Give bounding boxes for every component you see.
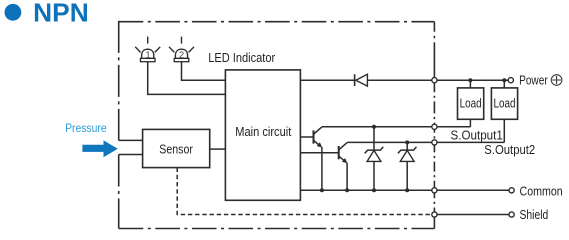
diode D1: [355, 74, 368, 86]
junction ZD2 bottom: [405, 188, 409, 192]
enclosure border right segment 4: [433, 142, 435, 190]
svg-text:Shield: Shield: [520, 207, 549, 222]
wire shield outside: [434, 214, 509, 216]
wire LED1 to main circuit: [148, 62, 226, 95]
junction ZD2 top: [405, 140, 409, 144]
junction load 1 stem: [468, 78, 472, 82]
LED indicator 1: [135, 37, 160, 62]
svg-text:Sensor: Sensor: [159, 142, 193, 157]
wire sensor input 2: [119, 154, 143, 156]
svg-text:NPN: NPN: [33, 0, 88, 27]
enclosure border left upper segment: [118, 21, 120, 140]
enclosure border right segment 1: [433, 22, 435, 80]
enclosure border bottom: [119, 228, 435, 230]
svg-text:LED Indicator: LED Indicator: [208, 50, 276, 65]
wire main circuit to diode: [300, 79, 354, 81]
wire Q1 emitter to common: [321, 147, 323, 190]
sensor box: [143, 129, 210, 167]
wire S.Output2 line: [347, 141, 504, 143]
junction Q2 emitter: [345, 188, 349, 192]
junction ZD1 bottom: [372, 188, 376, 192]
pressure arrow: [82, 140, 117, 157]
LED indicator 2: [169, 37, 194, 62]
wire main circuit to Q1 base: [300, 136, 312, 138]
junction Q1 emitter: [320, 188, 324, 192]
wire LED2 to main circuit: [182, 62, 226, 80]
svg-text:Common: Common: [520, 184, 563, 199]
transistor Q2: [339, 143, 348, 164]
svg-text:Power: Power: [519, 72, 548, 87]
enclosure border right segment 5: [433, 190, 435, 214]
zener diode ZD2: [398, 142, 417, 190]
transistor Q1: [314, 127, 323, 148]
shield trace from sensor (dashed): [177, 168, 432, 215]
junction load 2 stem: [502, 78, 506, 82]
svg-text:Load: Load: [494, 96, 516, 111]
svg-text:Load: Load: [460, 96, 482, 111]
common terminal: [509, 188, 514, 193]
wire common line: [300, 189, 509, 191]
node S.Output2 boundary: [432, 140, 437, 145]
title bullet: [5, 4, 22, 21]
load 2: [491, 80, 517, 142]
node shield boundary: [432, 212, 437, 217]
enclosure border right segment 6: [433, 215, 435, 229]
enclosure border left lower segment: [118, 155, 120, 229]
svg-text:1: 1: [145, 50, 150, 61]
enclosure border top: [119, 21, 435, 23]
main circuit box U1: [225, 70, 300, 200]
power polarity symbol: [551, 75, 562, 86]
load 1: [458, 80, 484, 127]
node power boundary: [432, 78, 437, 83]
svg-text:S.Output2: S.Output2: [484, 142, 535, 157]
wire main circuit to Q2 base: [300, 152, 338, 154]
wire sensor input 1: [119, 139, 143, 141]
svg-text:Main circuit: Main circuit: [235, 124, 291, 139]
node S.Output1 boundary: [432, 124, 437, 129]
svg-text:S.Output1: S.Output1: [451, 128, 503, 143]
wire diode to power terminal: [367, 79, 508, 81]
shield terminal: [509, 212, 514, 217]
junction ZD1 top: [372, 125, 376, 129]
wire sensor to main circuit: [210, 148, 226, 150]
power terminal: [508, 78, 513, 83]
svg-text:Pressure: Pressure: [65, 121, 107, 135]
wire Q2 emitter to common: [346, 163, 348, 191]
enclosure border right segment 3: [433, 127, 435, 143]
svg-text:2: 2: [179, 50, 184, 61]
node common boundary: [432, 188, 437, 193]
enclosure border right segment 2: [433, 80, 435, 127]
zener diode ZD1: [365, 127, 384, 191]
wire S.Output1 line: [322, 126, 471, 128]
